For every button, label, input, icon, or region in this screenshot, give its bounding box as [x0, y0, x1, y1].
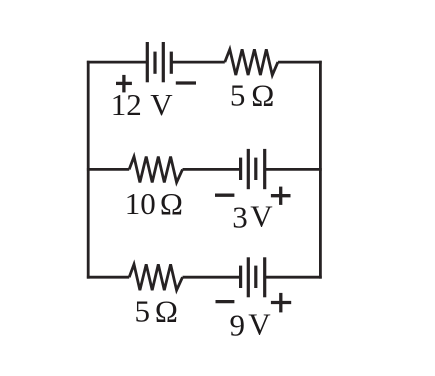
battery 12 V plate 4 short (negative) [170, 52, 173, 74]
svg-text:3: 3 [232, 199, 248, 234]
svg-text:5: 5 [135, 293, 151, 328]
wire bottom-left segment [87, 276, 129, 279]
polarity - of 3 V battery [215, 194, 234, 197]
svg-text:10: 10 [125, 186, 156, 221]
battery 9 V plate 2 tall [247, 257, 250, 297]
label "5 &#937;" top [230, 78, 274, 113]
polarity - of 12 V battery [176, 81, 196, 84]
svg-text:5: 5 [230, 78, 246, 113]
label "10 &#937;" [125, 186, 183, 221]
battery 3 V plate 4 tall (positive) [263, 149, 266, 189]
label "9 V" [230, 306, 272, 342]
wire right vertical [319, 61, 322, 279]
battery 12 V plate 1 tall (positive) [146, 42, 149, 82]
polarity - of 9 V battery [216, 300, 235, 303]
wire top-middle segment [171, 61, 225, 64]
svg-text:V: V [248, 306, 271, 341]
svg-text:Ω: Ω [155, 293, 178, 328]
svg-text:V: V [250, 198, 273, 233]
wire top-right segment [278, 61, 322, 64]
battery 9 V plate 4 tall (positive) [263, 257, 266, 297]
svg-text:Ω: Ω [251, 78, 274, 113]
battery 12 V plate 2 short [153, 52, 156, 74]
resistor 10 ohm middle zigzag [129, 157, 182, 183]
battery 9 V plate 1 short (negative) [239, 266, 242, 288]
polarity + of 3 V battery [271, 187, 291, 205]
svg-text:12: 12 [111, 87, 142, 122]
polarity + of 9 V battery [271, 293, 291, 313]
label "5 &#937;" bottom [135, 293, 178, 328]
svg-text:9: 9 [230, 308, 246, 343]
wire bottom-right segment [265, 276, 322, 279]
wire middle-left segment [87, 168, 129, 171]
battery 12 V plate 3 tall [162, 42, 165, 82]
polarity + of 12 V battery [116, 75, 132, 93]
label "3 V" [232, 198, 273, 234]
wire left vertical [87, 61, 90, 279]
battery 3 V plate 1 short (negative) [239, 158, 242, 180]
resistor 5 ohm bottom zigzag [129, 264, 182, 290]
wire middle-center segment [183, 168, 241, 171]
wire middle-right segment [265, 168, 322, 171]
svg-text:Ω: Ω [160, 186, 183, 221]
battery 3 V plate 2 tall [247, 149, 250, 189]
resistor 5 ohm top zigzag [225, 49, 278, 75]
wire bottom-middle segment [183, 276, 241, 279]
battery 3 V plate 3 short [254, 158, 257, 180]
svg-text:V: V [150, 87, 173, 122]
wire top-left segment [87, 61, 147, 64]
battery 9 V plate 3 short [254, 266, 257, 288]
label "12 V" [111, 87, 174, 122]
